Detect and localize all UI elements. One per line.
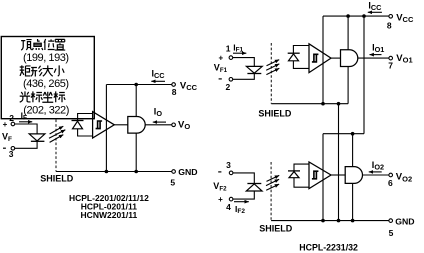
svg-text:VO2: VO2 (396, 172, 412, 184)
svg-text:2: 2 (226, 82, 231, 92)
svg-text:3: 3 (9, 149, 14, 159)
svg-text:SHIELD: SHIELD (259, 223, 293, 233)
svg-text:VCC: VCC (180, 80, 198, 92)
svg-text:8: 8 (387, 20, 392, 30)
svg-text:7: 7 (388, 61, 393, 71)
svg-text:+: + (218, 195, 223, 204)
svg-text:1: 1 (226, 44, 231, 54)
svg-text:HCPL-2231/32: HCPL-2231/32 (299, 242, 358, 252)
svg-text:3: 3 (226, 160, 231, 170)
svg-text:2: 2 (9, 113, 14, 123)
svg-text:SHIELD: SHIELD (40, 173, 74, 183)
svg-text:4: 4 (226, 202, 231, 212)
svg-text:IO: IO (154, 107, 163, 119)
svg-text:ICC: ICC (368, 0, 382, 12)
svg-text:5: 5 (389, 228, 394, 238)
svg-text:+: + (219, 53, 224, 62)
svg-text:8: 8 (172, 87, 177, 97)
svg-text:IO2: IO2 (372, 160, 384, 172)
svg-text:GND: GND (395, 217, 414, 227)
svg-text:(199, 193): (199, 193) (23, 52, 69, 64)
svg-text:5: 5 (170, 178, 175, 188)
svg-text:ICC: ICC (152, 69, 166, 81)
svg-text:(202, 322): (202, 322) (23, 104, 69, 116)
svg-text:IO1: IO1 (372, 42, 384, 54)
svg-text:VO1: VO1 (396, 53, 412, 65)
svg-text:(436, 265): (436, 265) (23, 78, 69, 90)
svg-text:GND: GND (178, 167, 197, 177)
svg-text:SHIELD: SHIELD (258, 108, 292, 118)
svg-text:VCC: VCC (396, 12, 414, 24)
svg-text:+: + (3, 120, 8, 129)
svg-text:HCNW2201/11: HCNW2201/11 (81, 210, 138, 220)
svg-text:VO: VO (178, 119, 190, 131)
svg-text:6: 6 (388, 178, 393, 188)
